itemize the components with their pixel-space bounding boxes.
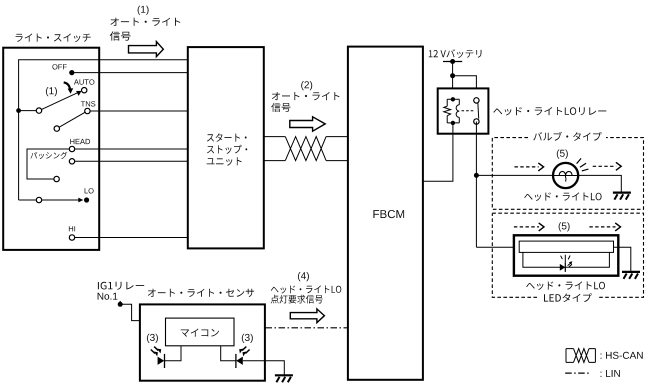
wire: feed junction to bulb and to ground drop: [476, 175, 621, 192]
contact: OFF (filled dot): [69, 70, 74, 75]
contact: passing output (open circle): [69, 159, 74, 164]
label: headlight LO request line1: [271, 285, 342, 293]
contact: AUTO (open circle): [82, 88, 87, 93]
label HI: [69, 226, 75, 231]
resistor zigzag (left branch): [444, 106, 451, 116]
FBCM box: [348, 47, 423, 380]
contact: passing lever end (open circle): [54, 176, 59, 181]
light arrows into right photodiode: [239, 347, 249, 357]
wire: LIN bus sensor to FBCM (dash-dot): [266, 327, 348, 329]
photodiode right: [221, 346, 266, 368]
label: headlight LO request line2: [271, 295, 323, 304]
microcomputer box: [166, 318, 235, 346]
wire: HS-CAN pair start-stop to braid: [264, 137, 348, 161]
label: microcomputer (maikon): [181, 329, 219, 337]
label (4): [298, 272, 309, 281]
label (2): [301, 81, 312, 90]
label: auto-light signal (2) line2: [271, 103, 290, 112]
label: auto-light signal (2) line1: [272, 92, 340, 100]
light switch box: [3, 48, 99, 250]
label AUTO: [74, 79, 95, 84]
label: auto-light signal (1) line2: [110, 31, 131, 40]
node: coil top: [451, 97, 455, 101]
legend text HS-CAN: [601, 352, 643, 359]
label HEAD: [70, 139, 90, 144]
label OFF: [52, 64, 66, 69]
wire: sensor to ground: [266, 361, 285, 375]
label No.1: [98, 293, 118, 300]
node: IG1 feed dot: [118, 302, 123, 307]
legend: LIN dash-dot line: [565, 372, 589, 374]
node: battery feed junction: [450, 73, 455, 78]
block arrow: headlight LO request signal (4): [290, 309, 324, 323]
wire: LED unit to ground: [614, 247, 631, 271]
wire: IG1 feed into sensor: [120, 304, 139, 320]
relay contact bottom: [474, 119, 479, 124]
bulb light rays: [577, 158, 589, 171]
contact: HEAD (open circle): [69, 146, 74, 151]
LED unit inner loop: [523, 252, 610, 267]
block arrow: auto-light signal (1): [129, 42, 164, 57]
label: headlight LO (bulb): [524, 192, 601, 201]
ground: bulb: [613, 193, 631, 200]
label FBCM: [373, 210, 404, 218]
wire: branch to rotary lever pivot: [19, 110, 37, 112]
label: headlight LO relay: [493, 107, 606, 116]
label: IG1 relay: [98, 282, 144, 290]
label: bulb type (barubu taipu): [533, 132, 601, 141]
wire: junction to relay coil: [452, 76, 454, 100]
dashed arrow left (LED): [514, 223, 544, 231]
node: battery terminal dot: [450, 59, 455, 64]
wire: TNS contact to start-stop unit: [90, 110, 188, 112]
dashed arrow right (LED): [589, 223, 620, 231]
dashed arrow left (bulb): [515, 163, 544, 171]
wire: passing contact to start-stop unit: [75, 160, 188, 162]
auto-light sensor box: [140, 304, 265, 380]
label: auto-light sensor: [148, 289, 254, 297]
label (3) left: [147, 334, 158, 343]
relay contact top: [474, 98, 479, 103]
wire: feed to LED unit: [476, 246, 519, 248]
wire: IG1 stub to dot: [119, 301, 121, 304]
start-stop unit box: [188, 47, 264, 248]
mechanical link (dashed): [462, 110, 474, 112]
HS-CAN twisted-pair braid: [285, 137, 326, 161]
label (5) LED: [559, 222, 570, 231]
legend text LIN: [601, 370, 620, 377]
wire: relay output down to LED branch: [475, 122, 477, 248]
dashed box: LED type: [492, 213, 643, 297]
rotation arrow (1) OFF->AUTO: [64, 82, 73, 94]
wire: junction to relay contact branch: [453, 76, 477, 101]
ground: LED: [622, 272, 640, 279]
label (1) top: [138, 6, 149, 15]
wire: HI contact to start-stop unit: [75, 237, 188, 239]
node: common junction: [16, 108, 21, 113]
label: start-stop unit line3: [207, 157, 242, 166]
lever ghost: TNS position: [54, 112, 85, 131]
wire: passing switch U-loop from HEAD: [27, 149, 69, 179]
battery terminal bar: [443, 61, 462, 63]
LED unit outer box: [514, 235, 618, 275]
label: start-stop unit line1: [207, 133, 247, 142]
wire: OFF contact to start-stop unit: [72, 72, 188, 74]
relay contact lever: [477, 103, 480, 119]
wire: LO lever line with arrowhead: [36, 197, 83, 202]
label: headlight LO (LED): [526, 281, 605, 290]
wire: battery down to junction: [452, 62, 454, 76]
label: auto-light signal (1) line1: [110, 18, 180, 26]
label: passing (passhingu): [31, 152, 68, 159]
label (3) right: [242, 334, 253, 343]
photodiode left: [158, 346, 181, 368]
dashed box: bulb type: [492, 138, 643, 210]
legend: HS-CAN braid symbol: [566, 349, 595, 363]
relay coil + resistor parallel branch frame: [447, 99, 459, 123]
wire: coil return to FBCM: [423, 123, 453, 181]
contact: LO (filled dot): [84, 197, 89, 202]
bulb: headlight LO lamp: [553, 163, 578, 188]
label: light switch (raito suitchi): [16, 34, 91, 43]
LED unit inner top rect: [519, 241, 613, 252]
label: 12V battery: [429, 49, 482, 58]
light arrows into left photodiode: [151, 347, 161, 357]
ground: sensor: [275, 375, 293, 382]
label: start-stop unit line2: [207, 145, 247, 154]
contact: HI (open circle): [69, 235, 74, 240]
label TNS: [81, 101, 96, 106]
node: coil bottom: [451, 121, 455, 125]
block arrow: auto-light signal (2): [290, 117, 325, 131]
wire: common vertical to LO pivot: [19, 199, 37, 201]
switch lever: pivot to AUTO with arrowhead: [36, 91, 81, 113]
label (5) bulb: [557, 150, 568, 159]
wire: switch common feed (top) to start-stop unit: [19, 60, 188, 200]
coil arcs (right branch): [456, 105, 459, 118]
node: headlight feed junction: [474, 173, 479, 178]
LED symbol: [560, 255, 573, 272]
label: LED type (LED taipu): [544, 293, 592, 302]
label LO: [85, 188, 94, 193]
wire: HEAD contact to start-stop unit: [75, 148, 188, 150]
dashed arrow right (bulb): [593, 162, 622, 170]
relay box (headlight LO relay): [438, 88, 489, 133]
label (1) at switch: [46, 87, 57, 96]
contact: TNS (open circle): [85, 108, 90, 113]
